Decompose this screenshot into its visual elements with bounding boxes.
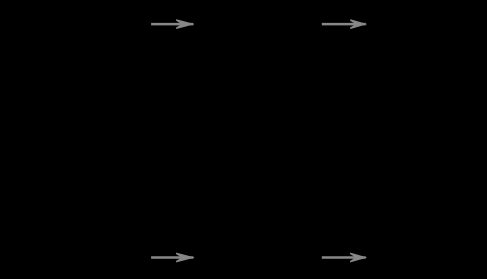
arrow top-left <box>151 19 194 28</box>
arrow top-right <box>322 19 367 28</box>
arrow bottom-left <box>151 253 194 262</box>
arrow bottom-right <box>322 253 367 262</box>
